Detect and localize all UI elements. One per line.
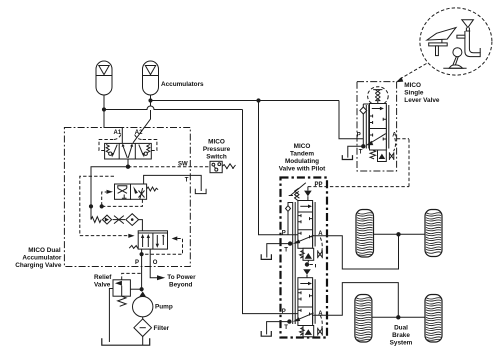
charging valve center cell arrows xyxy=(122,144,134,158)
unloader pilot arrow xyxy=(107,190,113,194)
unloader spring xyxy=(147,187,159,191)
svg-text:O: O xyxy=(153,260,158,266)
pilot valve left pilot arrow xyxy=(128,234,134,238)
svg-text:MICO: MICO xyxy=(404,82,421,89)
svg-text:P: P xyxy=(282,309,286,315)
node accumulator1 junction xyxy=(102,107,106,111)
pilot arrow PP down xyxy=(304,191,312,197)
unloader pilot dashed box xyxy=(80,176,128,235)
link between sections xyxy=(303,260,315,277)
wire SW sense dashed xyxy=(128,166,210,168)
wire row to pilot valve xyxy=(139,220,143,231)
charging valve right solenoid wing xyxy=(142,140,157,151)
filter xyxy=(134,319,152,337)
front axle line xyxy=(374,233,426,235)
tank unloader drain xyxy=(195,189,206,194)
svg-text:A: A xyxy=(392,132,397,138)
wheel front-right xyxy=(425,210,442,257)
svg-text:T: T xyxy=(185,178,189,184)
node T junction section1 xyxy=(288,241,292,245)
wire pump to filter xyxy=(142,317,144,319)
svg-text:SW: SW xyxy=(178,161,188,167)
icon foot pedal xyxy=(427,28,456,56)
tandem section1 override symbol xyxy=(318,250,323,258)
svg-text:T: T xyxy=(359,150,363,156)
charging valve spool body xyxy=(105,143,152,159)
MICO Tandem Modulating Valve enclosure xyxy=(281,178,328,338)
check valve diamond single xyxy=(360,107,367,114)
single valve modulating arrow xyxy=(366,134,386,146)
wire branch to upper tandem P xyxy=(259,101,298,235)
svg-text:Accumulator: Accumulator xyxy=(22,254,62,261)
svg-text:Charging Valve: Charging Valve xyxy=(15,262,62,269)
wire accumulator1 stem xyxy=(103,95,105,110)
dashed curve A to override single xyxy=(394,138,396,151)
node pilot junction 1 xyxy=(89,204,93,208)
node accumulator2 junction xyxy=(148,98,152,102)
node pilot junction 2 xyxy=(100,204,104,208)
wire rear axle feed from section2 A xyxy=(313,283,399,318)
charging valve left solenoid wing xyxy=(99,140,114,151)
wire O port to power beyond xyxy=(150,249,157,278)
svg-text:Dual: Dual xyxy=(394,324,408,331)
node pilot dashed junction xyxy=(140,252,144,256)
wire T drain section2 xyxy=(267,322,290,335)
single valve body xyxy=(370,104,387,151)
node T junction section2 xyxy=(287,319,291,323)
check valve diamond 2 xyxy=(126,214,139,226)
tandem bypass check 1 xyxy=(288,203,293,235)
node spool bottom junction xyxy=(126,165,130,169)
accumulator 2 xyxy=(143,61,159,95)
svg-text:Single: Single xyxy=(404,90,424,97)
svg-text:MICO: MICO xyxy=(208,139,225,146)
pilot valve spring xyxy=(129,245,138,248)
pilot valve right pilot arrow xyxy=(172,236,178,240)
svg-text:P: P xyxy=(135,260,139,266)
svg-text:System: System xyxy=(390,339,413,346)
wire T drain single xyxy=(348,146,364,157)
dashed curve A to override section1 xyxy=(320,238,322,252)
svg-text:MICO: MICO xyxy=(294,143,311,150)
pilot line PP dashed xyxy=(308,139,409,187)
svg-text:Modulating: Modulating xyxy=(285,158,319,165)
tank section1 xyxy=(261,254,271,259)
icon column lever xyxy=(457,20,480,57)
wire front axle feed from section1 A xyxy=(313,234,399,269)
wire spool drain stem xyxy=(127,159,129,167)
relief valve spring xyxy=(118,296,126,306)
svg-text:Brake: Brake xyxy=(392,332,410,339)
wire acc1 to right with hop over acc2 line xyxy=(104,106,243,110)
wire unloader tank line xyxy=(144,175,202,191)
relief valve dashed pilot xyxy=(122,273,142,279)
orifice symbol xyxy=(113,216,125,224)
wire accumulator2 stem xyxy=(150,95,152,101)
tandem section 1 body xyxy=(298,201,315,249)
rear axle line xyxy=(372,316,425,318)
svg-text:P: P xyxy=(357,132,361,138)
wire P port down xyxy=(141,249,143,291)
wire P bypass with check xyxy=(363,104,369,146)
svg-text:Pressure: Pressure xyxy=(203,146,231,153)
tank single lever valve xyxy=(342,155,352,159)
tandem lever xyxy=(289,183,306,202)
wire filter to tank xyxy=(142,337,144,346)
single valve rails xyxy=(366,105,389,149)
svg-text:Filter: Filter xyxy=(154,325,170,332)
check valve diamond 1 xyxy=(102,215,111,224)
tandem section1 bottom spring xyxy=(300,250,305,258)
svg-text:Valve: Valve xyxy=(94,281,111,288)
wire left supply vertical to lower tandem P xyxy=(243,110,298,314)
tank section2 xyxy=(261,331,271,336)
unloader valve left section xyxy=(115,184,131,199)
pilot valve right pilot dashed loop xyxy=(145,239,183,255)
node pump junction xyxy=(140,287,144,291)
accumulator 1 xyxy=(96,61,112,95)
wheel front-left xyxy=(356,210,374,258)
wire acc2 to A2 port xyxy=(133,101,151,143)
tandem section 2 modulating arrow xyxy=(293,313,314,322)
single valve bottom spring xyxy=(370,150,375,159)
MICO Single Lever Valve enclosure xyxy=(357,82,397,171)
svg-text:Switch: Switch xyxy=(206,154,227,161)
tandem section2 override symbol xyxy=(318,328,323,336)
arrow to power beyond xyxy=(157,275,165,280)
charging valve left cell xyxy=(106,144,117,157)
wire relief to pump line xyxy=(130,288,141,290)
tank reservoir xyxy=(102,338,150,345)
svg-text:T: T xyxy=(284,248,288,254)
svg-text:MICO Dual: MICO Dual xyxy=(28,247,61,254)
check and orifice row: spring xyxy=(91,217,101,223)
wire junction to left xyxy=(91,167,128,220)
pump xyxy=(133,297,153,317)
node rear axle junction xyxy=(396,315,400,319)
arrow callout xyxy=(396,77,404,82)
svg-text:Beyond: Beyond xyxy=(169,281,193,288)
single valve bottom box xyxy=(378,150,387,162)
pump flow arrow xyxy=(139,291,147,297)
tandem section1 bottom box xyxy=(303,248,314,260)
tandem section2 bottom box xyxy=(303,326,314,337)
wire T drain section1 xyxy=(267,244,290,258)
svg-text:Pump: Pump xyxy=(155,303,173,310)
wheel rear-right xyxy=(425,295,442,343)
relief valve R1 xyxy=(113,280,130,296)
unloader valve right section xyxy=(131,184,147,199)
svg-text:A2: A2 xyxy=(135,130,143,136)
svg-text:P: P xyxy=(282,230,286,236)
lever spring mechanism dashed circle xyxy=(368,87,389,106)
node branch junction xyxy=(256,98,260,102)
lever spring stack xyxy=(373,90,382,104)
wire relief drain xyxy=(109,289,113,343)
svg-text:Accumulators: Accumulators xyxy=(161,81,204,88)
svg-text:Lever Valve: Lever Valve xyxy=(404,97,440,104)
charging valve right cell xyxy=(139,144,150,157)
MICO Dual Accumulator Charging Valve enclosure xyxy=(64,128,190,267)
icon hand lever xyxy=(443,48,466,69)
actuator callout dashed line xyxy=(400,64,427,80)
pressure switch SW xyxy=(210,161,236,172)
node front axle junction xyxy=(396,232,400,236)
actuator options dashed circle xyxy=(420,8,492,75)
tandem section2 bottom spring xyxy=(300,327,305,335)
wire to single lever valve P xyxy=(339,101,363,139)
tandem section 1 modulating arrow xyxy=(293,235,314,244)
wire acc2 to right xyxy=(151,100,340,102)
pilot operated valve body xyxy=(138,231,167,249)
wire PP stem xyxy=(307,187,309,191)
svg-text:To Power: To Power xyxy=(167,274,196,281)
wire acc1 to A1 port xyxy=(104,110,122,144)
node T junction single xyxy=(361,144,365,148)
svg-text:T: T xyxy=(284,325,288,331)
svg-text:Tandem: Tandem xyxy=(290,151,314,158)
tandem section 2 body xyxy=(298,278,315,326)
svg-text:Valve with Pilot: Valve with Pilot xyxy=(279,166,326,173)
wheel rear-left xyxy=(355,295,372,343)
svg-text:Relief: Relief xyxy=(94,274,112,281)
single valve override symbol xyxy=(389,152,393,160)
tandem left rails xyxy=(293,202,296,324)
dashed curve A to override section2 xyxy=(320,315,322,329)
